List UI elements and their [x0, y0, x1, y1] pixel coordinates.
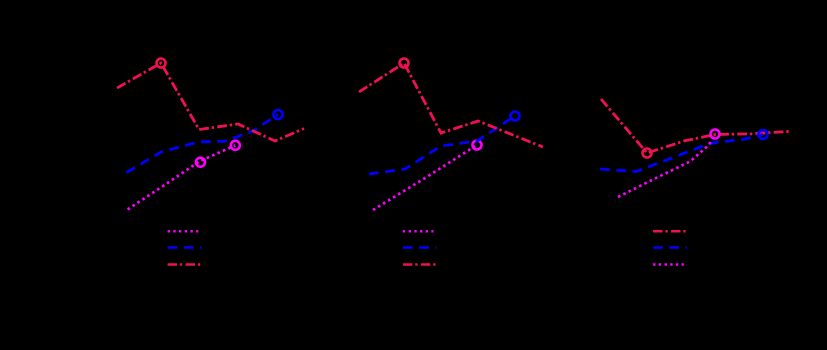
- chart 2 blue marker: [511, 112, 520, 121]
- chart 2 legend red dash-dot handle: [403, 263, 436, 266]
- chart 2 magenta marker: [473, 141, 482, 150]
- chart 1 blue marker: [274, 110, 283, 119]
- chart 3 magenta marker: [711, 130, 720, 139]
- chart 1 magenta dotted curve: [128, 145, 236, 209]
- chart 3 magenta dotted curve: [618, 134, 715, 197]
- chart 3 blue marker: [759, 130, 768, 139]
- chart 1 magenta marker end: [231, 141, 240, 150]
- chart 1 red dash-dot curve: [117, 63, 304, 141]
- chart 3 legend magenta dotted handle: [653, 263, 684, 265]
- chart 1 legend blue dashed handle: [168, 246, 202, 249]
- chart 2 blue dashed curve: [369, 116, 515, 174]
- chart 1 blue dashed curve: [127, 115, 279, 173]
- chart 1 legend red dash-dot handle: [168, 263, 202, 266]
- chart 1 legend magenta dotted handle: [168, 230, 199, 232]
- chart 1 red marker: [157, 59, 166, 68]
- chart 3 legend red dash-dot handle: [653, 230, 686, 233]
- chart 1 magenta marker mid: [196, 158, 205, 167]
- chart 2 red dash-dot curve: [359, 63, 543, 147]
- chart 2 legend blue dashed handle: [403, 246, 437, 249]
- chart 3 blue dashed curve: [600, 135, 763, 172]
- chart 3 legend blue dashed handle: [653, 246, 687, 249]
- chart 3 red marker: [643, 149, 652, 158]
- chart 2 legend magenta dotted handle: [403, 230, 434, 232]
- chart 2 red marker: [400, 59, 409, 68]
- chart 2 magenta dotted curve: [373, 145, 477, 210]
- chart 3 red dash-dot curve: [601, 99, 790, 153]
